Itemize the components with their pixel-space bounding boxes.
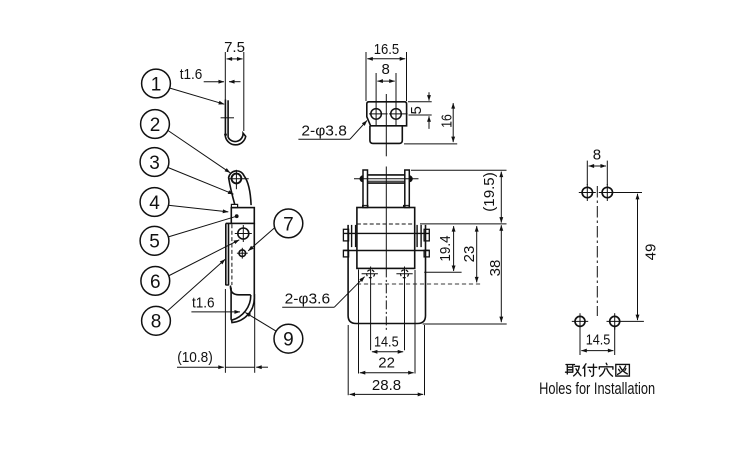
svg-text:1: 1 (151, 74, 162, 95)
svg-text:5: 5 (408, 106, 425, 114)
svg-text:49: 49 (643, 244, 660, 261)
svg-text:8: 8 (593, 147, 601, 164)
svg-text:22: 22 (378, 355, 395, 372)
svg-text:4: 4 (149, 193, 160, 214)
svg-text:t1.6: t1.6 (180, 66, 203, 83)
svg-text:28.8: 28.8 (372, 377, 401, 394)
svg-text:(10.8): (10.8) (177, 349, 213, 366)
svg-text:2-φ3.8: 2-φ3.8 (301, 123, 347, 140)
svg-text:8: 8 (382, 61, 390, 78)
svg-text:5: 5 (149, 232, 160, 253)
svg-text:2: 2 (150, 115, 161, 136)
svg-text:3: 3 (149, 153, 160, 174)
svg-text:7.5: 7.5 (224, 39, 245, 56)
svg-text:14.5: 14.5 (374, 333, 399, 350)
svg-text:23: 23 (461, 246, 478, 263)
svg-text:(19.5): (19.5) (481, 172, 498, 212)
svg-text:6: 6 (150, 272, 161, 293)
svg-text:9: 9 (283, 330, 294, 351)
svg-text:16: 16 (439, 114, 456, 128)
svg-text:38: 38 (487, 260, 504, 277)
svg-text:19.4: 19.4 (437, 236, 454, 262)
svg-text:7: 7 (283, 214, 294, 235)
svg-text:Holes for Installation: Holes for Installation (539, 379, 655, 398)
svg-text:14.5: 14.5 (586, 332, 611, 349)
svg-text:16.5: 16.5 (374, 41, 399, 58)
svg-text:t1.6: t1.6 (192, 294, 215, 311)
svg-text:2-φ3.6: 2-φ3.6 (285, 290, 331, 307)
svg-text:8: 8 (151, 312, 162, 333)
